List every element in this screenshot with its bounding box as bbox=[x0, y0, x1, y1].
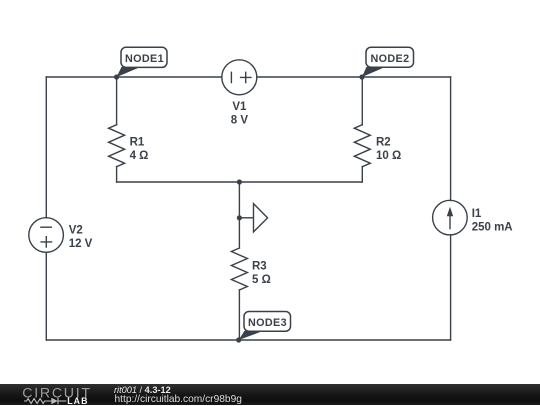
resistor R3 bbox=[231, 248, 247, 290]
svg-text:R3: R3 bbox=[252, 261, 267, 273]
junction dot probe bbox=[237, 215, 242, 220]
label R3 value bbox=[252, 261, 271, 286]
resistor R2 bbox=[354, 125, 370, 167]
wire bottom rail bbox=[46, 339, 450, 341]
label V2 value bbox=[69, 225, 93, 250]
node dot NODE2 bbox=[359, 74, 364, 79]
NODE3 callout box bbox=[244, 312, 291, 332]
svg-text:NODE3: NODE3 bbox=[248, 317, 287, 329]
junction dot middle rail bbox=[237, 179, 242, 184]
svg-text:NODE1: NODE1 bbox=[125, 53, 164, 65]
current source I1 bbox=[433, 200, 468, 235]
svg-text:V1: V1 bbox=[232, 101, 247, 113]
resistor R1 bbox=[109, 125, 125, 167]
svg-text:5 Ω: 5 Ω bbox=[252, 274, 271, 286]
voltage source V2 bbox=[29, 218, 64, 253]
wire NODE2 drop to R2 bbox=[361, 77, 363, 125]
NODE2 callout box bbox=[366, 47, 414, 67]
probe triangle bbox=[254, 204, 268, 232]
svg-text:4 Ω: 4 Ω bbox=[130, 150, 149, 162]
wire top rail right (V1 to corner) bbox=[257, 76, 451, 78]
svg-text:8 V: 8 V bbox=[231, 115, 249, 127]
node dot NODE3 bbox=[236, 337, 241, 342]
wire top rail left (corner to V1) bbox=[46, 76, 222, 78]
label R1 value bbox=[130, 137, 149, 162]
svg-text:10 Ω: 10 Ω bbox=[376, 150, 401, 162]
svg-text:R1: R1 bbox=[130, 137, 145, 149]
wire center drop (middle rail to R3) bbox=[238, 182, 240, 248]
wire R2 bottom lead bbox=[361, 167, 363, 183]
wire right rail bottom (bottom rail to I1) bbox=[450, 235, 452, 340]
wire probe stub bbox=[239, 217, 253, 219]
svg-text:12 V: 12 V bbox=[69, 238, 93, 250]
svg-text:NODE2: NODE2 bbox=[371, 53, 410, 65]
wire R3 bottom lead to bottom rail bbox=[238, 290, 240, 340]
wire right rail top (I1 to top rail) bbox=[450, 77, 452, 201]
wire left rail bottom (V2 bottom to bottom rail) bbox=[45, 252, 47, 340]
node dot NODE1 bbox=[114, 74, 119, 79]
label I1 value bbox=[472, 208, 513, 233]
voltage source V1 bbox=[222, 60, 257, 95]
NODE1 callout box bbox=[121, 47, 167, 67]
svg-text:V2: V2 bbox=[69, 225, 83, 237]
wire R1 bottom lead bbox=[116, 167, 118, 183]
svg-text:I1: I1 bbox=[472, 208, 482, 220]
NODE2 callout tail bbox=[362, 67, 386, 77]
svg-text:R2: R2 bbox=[376, 137, 391, 149]
svg-text:250 mA: 250 mA bbox=[472, 221, 513, 233]
NODE1 callout tail bbox=[117, 67, 141, 77]
wire left rail top (node1 corner to V2 top) bbox=[45, 77, 47, 218]
CircuitLab logo bbox=[22, 385, 97, 406]
label R2 value bbox=[376, 137, 401, 162]
current source I1 arrowhead bbox=[447, 207, 453, 217]
label V1 value bbox=[231, 101, 249, 127]
wire middle rail bbox=[117, 181, 363, 183]
footer text bbox=[113, 383, 115, 385]
wire NODE1 drop to R1 bbox=[116, 77, 118, 125]
NODE3 callout tail bbox=[239, 331, 264, 340]
footer bar bbox=[0, 384, 540, 405]
